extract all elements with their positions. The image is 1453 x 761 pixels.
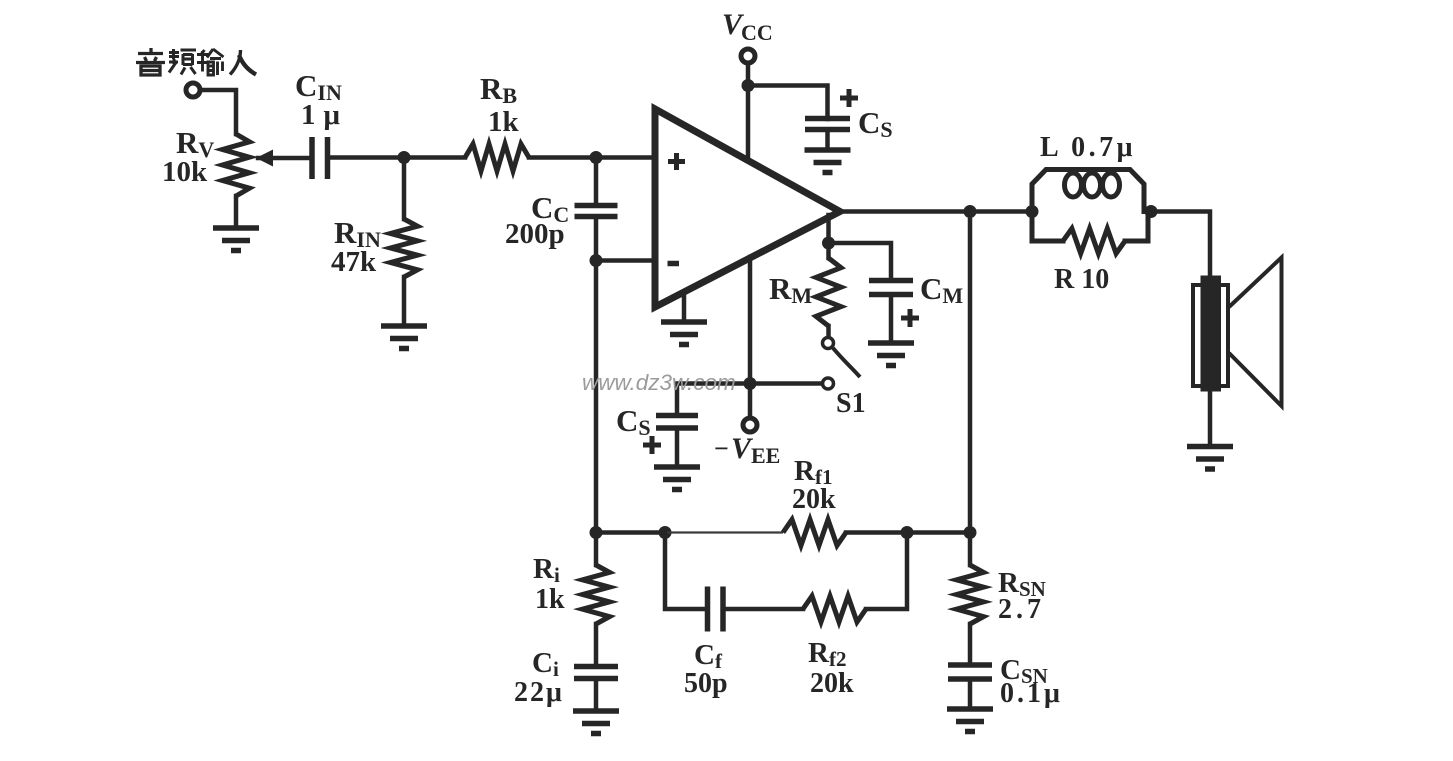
- ground CS bottom: [654, 467, 700, 490]
- input terminal: [186, 83, 200, 97]
- wire RM to switch: [826, 326, 831, 337]
- node L-R right: [1145, 205, 1158, 218]
- wire Ri to Ci: [594, 624, 599, 666]
- svg-text:2.7: 2.7: [998, 594, 1045, 625]
- ground Ci: [573, 711, 619, 734]
- node L-R left: [1026, 205, 1039, 218]
- node RM top: [822, 237, 835, 250]
- wire VCC node to CS: [748, 86, 828, 120]
- op-amp U1: [655, 109, 840, 307]
- svg-text:200p: 200p: [505, 218, 565, 250]
- resistor Rf1: [783, 520, 846, 546]
- wire CM to ground: [889, 295, 894, 343]
- svg-text:10k: 10k: [162, 156, 208, 188]
- switch S1 upper contact: [823, 338, 834, 349]
- svg-text:CS: CS: [858, 105, 893, 142]
- wire op-amp VEE pin down: [748, 257, 753, 418]
- resistor R10 bottom path: [1032, 212, 1063, 242]
- plus CS bottom: [643, 436, 661, 454]
- inductor L top path: [1032, 170, 1144, 212]
- wire Rf1 to node: [846, 530, 970, 535]
- svg-text:1k: 1k: [488, 106, 520, 138]
- speaker coil: [1193, 285, 1228, 386]
- capacitor CS supply-top: [805, 119, 850, 130]
- label audio-input (音频输入): [136, 48, 165, 75]
- plus CM: [901, 309, 919, 327]
- wire Cf branch down: [665, 533, 706, 610]
- svg-text:20k: 20k: [810, 668, 854, 699]
- potentiometer RV: [223, 134, 250, 196]
- terminal -VEE: [743, 418, 757, 432]
- resistor RB: [465, 144, 529, 171]
- svg-text:www.dz3w.com: www.dz3w.com: [582, 370, 736, 395]
- wire output rail down: [968, 212, 973, 533]
- wire node to RIN: [402, 158, 407, 220]
- svg-text:R 10: R 10: [1054, 264, 1109, 295]
- resistor Rf2: [803, 596, 866, 622]
- capacitor CM: [869, 281, 913, 295]
- resistor RM: [816, 258, 841, 326]
- wire node to CC: [594, 158, 599, 206]
- ground RIN: [381, 326, 427, 349]
- svg-text:Ri: Ri: [533, 553, 560, 587]
- wire speaker to ground: [1208, 392, 1213, 446]
- svg-text:RB: RB: [480, 71, 517, 108]
- svg-text:1k: 1k: [535, 584, 565, 615]
- ground CM: [868, 343, 914, 366]
- wire RSN to CSN: [968, 624, 973, 665]
- op-amp - input mark: [668, 261, 680, 267]
- resistor Ri: [594, 533, 599, 566]
- wire CC to minus-node: [594, 217, 599, 261]
- wire Cf to Rf2: [724, 607, 803, 612]
- capacitor CIN: [312, 137, 328, 179]
- wire op-amp out to RM node: [826, 215, 831, 243]
- wire RB to op-amp +: [529, 155, 655, 160]
- wire feedback bus left: [596, 530, 665, 535]
- svg-text:Ci: Ci: [532, 647, 559, 681]
- wire input terminal to RV: [200, 90, 236, 134]
- terminal VCC: [741, 49, 755, 63]
- node Ri top: [590, 526, 603, 539]
- svg-text:Rf2: Rf2: [808, 637, 846, 671]
- node input-bias: [398, 151, 411, 164]
- node Rf1 right: [901, 526, 914, 539]
- ground speaker: [1187, 447, 1233, 470]
- speaker cone: [1229, 258, 1282, 407]
- capacitor CC: [575, 206, 618, 217]
- svg-text:L 0.7μ: L 0.7μ: [1040, 132, 1136, 163]
- capacitor Cf: [708, 587, 724, 632]
- svg-text:CS: CS: [616, 403, 651, 440]
- wire VEE node to CS bottom: [677, 384, 750, 416]
- wire node to op-amp -: [596, 258, 655, 263]
- ground op-amp: [661, 322, 707, 345]
- ground RV: [213, 228, 259, 251]
- svg-text:EE: EE: [751, 443, 780, 468]
- capacitor CSN: [948, 665, 992, 679]
- wire CS to ground: [825, 130, 830, 150]
- svg-text:22μ: 22μ: [514, 677, 564, 708]
- op-amp + input mark: [668, 153, 685, 170]
- wire RM node to CM: [829, 243, 892, 280]
- resistor RSN: [968, 533, 973, 566]
- inductor L loops: [1065, 173, 1082, 197]
- wire RIN to ground: [402, 277, 407, 325]
- capacitor CS supply-bottom: [656, 416, 698, 429]
- capacitor Ci: [574, 667, 618, 679]
- wire inverting down to feedback bus: [594, 261, 599, 533]
- ground CSN: [947, 709, 993, 732]
- wire VCC to op-amp: [746, 63, 751, 160]
- node snubber top: [964, 526, 977, 539]
- svg-text:0.1μ: 0.1μ: [1000, 678, 1063, 709]
- op-amp ground stem: [682, 292, 687, 322]
- wire to speaker: [1148, 212, 1210, 278]
- node VCC branch: [742, 79, 755, 92]
- node CC-top: [590, 151, 603, 164]
- plus CS top: [840, 89, 858, 107]
- svg-text:−: −: [714, 434, 729, 463]
- wire RV wiper to CIN: [258, 156, 310, 161]
- resistor RIN: [391, 219, 418, 277]
- wire CIN to RB: [329, 155, 465, 160]
- wire Rf2 up to bus: [866, 533, 907, 610]
- ground CS top: [805, 150, 851, 173]
- svg-text:50p: 50p: [684, 668, 728, 699]
- wire S1 to VEE node: [750, 381, 822, 386]
- wire RV to ground: [234, 196, 239, 227]
- svg-text:S1: S1: [836, 388, 866, 419]
- wire CS bottom to ground: [675, 428, 680, 466]
- svg-text:47k: 47k: [331, 246, 377, 278]
- node VEE branch: [744, 377, 757, 390]
- node output rail: [964, 205, 977, 218]
- svg-text:CC: CC: [741, 20, 773, 45]
- svg-text:RM: RM: [769, 271, 812, 308]
- node Cf branch: [659, 526, 672, 539]
- svg-text:1μ: 1μ: [301, 99, 348, 131]
- wire feedback bus thin: [665, 531, 783, 533]
- wire CSN to ground: [968, 679, 973, 708]
- node inverting: [590, 254, 603, 267]
- switch S1 arm: [833, 348, 860, 377]
- wire op-amp output: [838, 209, 1032, 214]
- svg-text:CM: CM: [920, 271, 963, 308]
- wire Ci to ground: [594, 679, 599, 711]
- switch S1 lower contact: [823, 378, 834, 389]
- svg-text:20k: 20k: [792, 484, 836, 515]
